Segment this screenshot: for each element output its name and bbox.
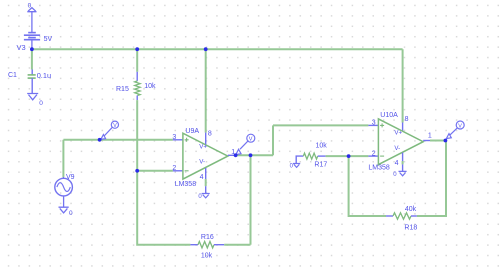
wire: node down to R16 left <box>137 171 190 245</box>
pin stub U9A pin 2 <box>173 170 183 172</box>
U9A plus mark <box>185 138 189 142</box>
wire: R16 right to output column <box>224 244 250 246</box>
pin stub U10A pin 4 <box>402 153 404 161</box>
svg-text:40k: 40k <box>405 206 417 213</box>
pin stub U9A pin 3 <box>173 139 183 141</box>
svg-text:2: 2 <box>372 150 376 157</box>
op-amp U9A <box>183 133 228 179</box>
junction node (R17 / R18 / pin2) <box>347 154 351 158</box>
pin stub R18 left <box>386 215 393 217</box>
pin stub U10A pin 8 <box>402 123 404 132</box>
wire: R17 to U10A pin 2 <box>326 155 369 157</box>
junction node (U10A output / R18) <box>444 139 448 143</box>
svg-text:3: 3 <box>372 119 376 126</box>
U10A minus mark <box>380 155 384 157</box>
svg-text:0: 0 <box>39 100 43 107</box>
battery V3 <box>24 33 40 50</box>
wire: battery to C1 <box>31 49 33 69</box>
svg-text:10k: 10k <box>144 83 156 90</box>
svg-text:C1: C1 <box>8 72 17 79</box>
capacitor C1 <box>28 75 36 78</box>
svg-text:0: 0 <box>69 210 73 217</box>
sine source V9 <box>55 178 73 207</box>
voltage probe (U9A output) <box>236 134 255 154</box>
junction node (rail / U9A pin 8) <box>204 47 208 51</box>
pin stub R15 top <box>136 72 138 81</box>
pin stub R17 left <box>296 156 303 163</box>
pin stub V9 top <box>62 177 64 178</box>
pin stub U10A output pin 1 <box>423 140 430 142</box>
svg-text:V: V <box>458 123 462 129</box>
svg-text:V-: V- <box>394 145 400 152</box>
svg-text:V: V <box>113 123 117 129</box>
svg-text:1: 1 <box>428 133 432 140</box>
pin stub R15 bottom <box>136 96 138 101</box>
svg-text:LM358: LM358 <box>368 165 390 172</box>
wire: U10A pin 4 to ground <box>402 161 404 164</box>
svg-text:R18: R18 <box>404 224 417 231</box>
wire: +5V rail <box>32 48 403 50</box>
svg-text:R15: R15 <box>116 86 129 93</box>
resistor R15 <box>135 81 140 96</box>
wire: input row V9 to U9A pin 3 <box>63 139 172 141</box>
ground 0 (U10A pin 4) <box>399 171 407 175</box>
svg-text:10k: 10k <box>201 253 213 260</box>
wire: U10A pin2 node down to R18 <box>349 156 386 216</box>
ground 0 (above battery V3) <box>27 8 36 33</box>
pin stub R18 right <box>411 215 417 217</box>
junction node (battery / rail) <box>30 47 34 51</box>
svg-text:10k: 10k <box>316 142 328 149</box>
svg-text:V: V <box>249 136 253 142</box>
voltage probe (input node) <box>101 121 119 139</box>
svg-text:U9A: U9A <box>185 128 199 135</box>
pin stub U10A pin 3 <box>368 124 378 126</box>
ground pin stub (U9A pin 4) <box>205 186 207 193</box>
junction node (rail / R15) <box>135 47 139 51</box>
svg-text:U10A: U10A <box>380 112 398 119</box>
wire: R18 right up to output <box>417 141 446 217</box>
wire: R15 down to node <box>136 100 138 171</box>
ground 0 (below V9) <box>59 207 69 213</box>
wire: rail down to U9A pin 8 <box>205 49 207 132</box>
pin stub C1 bottom <box>31 78 33 93</box>
junction node (input probe) <box>98 138 102 142</box>
pin stub R16 left <box>190 244 198 246</box>
ground 0 (U9A pin 4) <box>202 194 210 198</box>
svg-text:0: 0 <box>28 3 32 10</box>
ground pin stub (U10A pin 4) <box>402 164 404 171</box>
svg-text:2: 2 <box>172 165 176 172</box>
pin stub U9A output pin 1 <box>228 154 234 156</box>
svg-text:V3: V3 <box>17 43 26 52</box>
pin stub C1 top <box>31 70 33 75</box>
U9A minus mark <box>185 170 189 172</box>
resistor R17 <box>303 153 317 159</box>
svg-text:LM358: LM358 <box>175 181 197 188</box>
svg-text:R17: R17 <box>314 162 327 169</box>
wire: output node down to R16 <box>250 155 252 244</box>
op-amp U10A <box>378 119 423 165</box>
svg-text:8: 8 <box>405 116 409 123</box>
wire: U9A output row <box>234 154 273 156</box>
pin stub R17 right <box>318 155 326 157</box>
U10A plus mark <box>380 123 384 127</box>
svg-text:V+: V+ <box>394 129 402 136</box>
resistor R16 <box>198 242 214 248</box>
wire: U9A pin 4 to ground <box>205 179 207 186</box>
svg-text:8: 8 <box>208 131 212 138</box>
ground 0 (below C1) <box>27 94 38 100</box>
voltage probe (U10A output) <box>446 121 464 139</box>
pin stub U10A pin 2 <box>368 155 378 157</box>
svg-text:V-: V- <box>199 159 205 166</box>
svg-text:5V: 5V <box>44 36 53 43</box>
svg-text:3: 3 <box>172 134 176 141</box>
ground 0 (R17 left) <box>293 164 300 168</box>
pin stub U9A pin 8 <box>205 133 207 145</box>
wire: V9 up to input row <box>62 140 64 177</box>
wire: node to U9A pin 2 <box>137 170 173 172</box>
svg-text:4: 4 <box>395 160 399 167</box>
svg-text:V9: V9 <box>66 174 75 181</box>
wire: U10A output row <box>430 140 446 142</box>
wire: to U10A pin 3 <box>273 124 368 126</box>
junction node (output / R16) <box>249 153 253 157</box>
svg-text:4: 4 <box>200 174 204 181</box>
wire: rail down to U10A pin 8 <box>402 49 404 122</box>
junction node (R15 / pin2 / R16) <box>135 169 139 173</box>
wire: up to second stage row <box>272 125 274 155</box>
svg-text:0.1u: 0.1u <box>37 71 51 80</box>
svg-text:R16: R16 <box>201 234 214 241</box>
junction node (U9A output probe) <box>234 153 238 157</box>
pin stub U9A pin 4 <box>205 168 207 179</box>
resistor R18 <box>393 213 411 219</box>
wire: rail to R15 <box>136 49 138 72</box>
pin stub R16 right <box>214 244 224 246</box>
